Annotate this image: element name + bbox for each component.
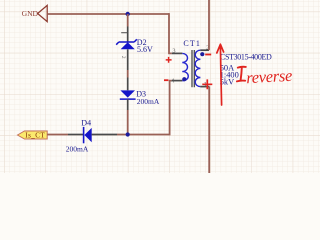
wire port to D4	[47, 134, 68, 136]
port Is_CT	[18, 131, 48, 139]
svg-text:200mA: 200mA	[66, 144, 89, 153]
port shape	[18, 131, 48, 139]
pin 1	[200, 86, 209, 88]
D2 triangle	[121, 42, 135, 49]
D4 triangle	[84, 128, 91, 142]
primary winding	[182, 53, 188, 80]
D3 cathode bar	[120, 98, 136, 100]
svg-text:200mA: 200mA	[137, 97, 160, 106]
svg-text:GND: GND	[22, 9, 39, 18]
red annotation minus left	[164, 79, 168, 81]
wire pin 2 up to top edge	[208, 0, 210, 50]
pin 2	[200, 49, 209, 51]
svg-text:Is_CT: Is_CT	[25, 131, 45, 139]
transformer CT1	[171, 39, 209, 88]
D4 cathode bar	[83, 127, 85, 143]
node junction bottom	[126, 132, 130, 136]
wire GND rail top	[47, 13, 169, 15]
red annotation plus right	[202, 79, 212, 89]
red annotation letter I	[237, 67, 246, 82]
D3 triangle	[120, 90, 135, 97]
core	[192, 50, 194, 87]
svg-text:reverse: reverse	[246, 66, 293, 87]
wire D3 down to bottom rail	[127, 110, 129, 135]
D3 cathode lead	[127, 99, 129, 110]
svg-text:3: 3	[172, 47, 175, 54]
svg-text:CT1: CT1	[183, 39, 201, 48]
D2 pin 2 (anode lead)	[127, 49, 129, 70]
part number label CST3015-400ED	[220, 52, 272, 61]
svg-text:2: 2	[120, 56, 126, 59]
diode D4	[66, 118, 117, 153]
red annotation minus right	[205, 54, 211, 56]
power port GND	[22, 5, 48, 21]
polarity dot primary	[182, 77, 186, 81]
red annotation arrow	[217, 44, 224, 105]
red annotation plus left	[166, 57, 172, 63]
pin 4	[172, 80, 183, 82]
wire corner down to pin 3	[169, 13, 172, 53]
wire between D2 and D3	[127, 70, 129, 78]
D4 anode lead	[92, 134, 117, 136]
polarity dot secondary	[200, 52, 204, 56]
svg-text:D4: D4	[81, 118, 91, 127]
zener diode D2	[116, 27, 153, 71]
wire D4 to corner	[117, 134, 170, 136]
D2 zener cathode bar	[116, 39, 137, 44]
wire pin 1 down to bottom edge	[208, 87, 210, 173]
ground triangle symbol	[38, 5, 48, 21]
node junction top	[126, 12, 130, 16]
svg-text:5.6V: 5.6V	[137, 45, 153, 54]
svg-text:CST3015-400ED: CST3015-400ED	[220, 52, 272, 61]
D3 anode lead	[127, 78, 129, 91]
D2 pin number 1	[121, 32, 127, 34]
pin 3	[172, 52, 183, 54]
diode D3	[120, 78, 160, 111]
wire top of D2	[127, 14, 129, 27]
D2 pin 1 (cathode lead)	[127, 27, 129, 43]
wire corner up to pin 4	[170, 81, 172, 136]
D4 cathode lead	[68, 134, 83, 136]
secondary winding	[195, 50, 200, 86]
